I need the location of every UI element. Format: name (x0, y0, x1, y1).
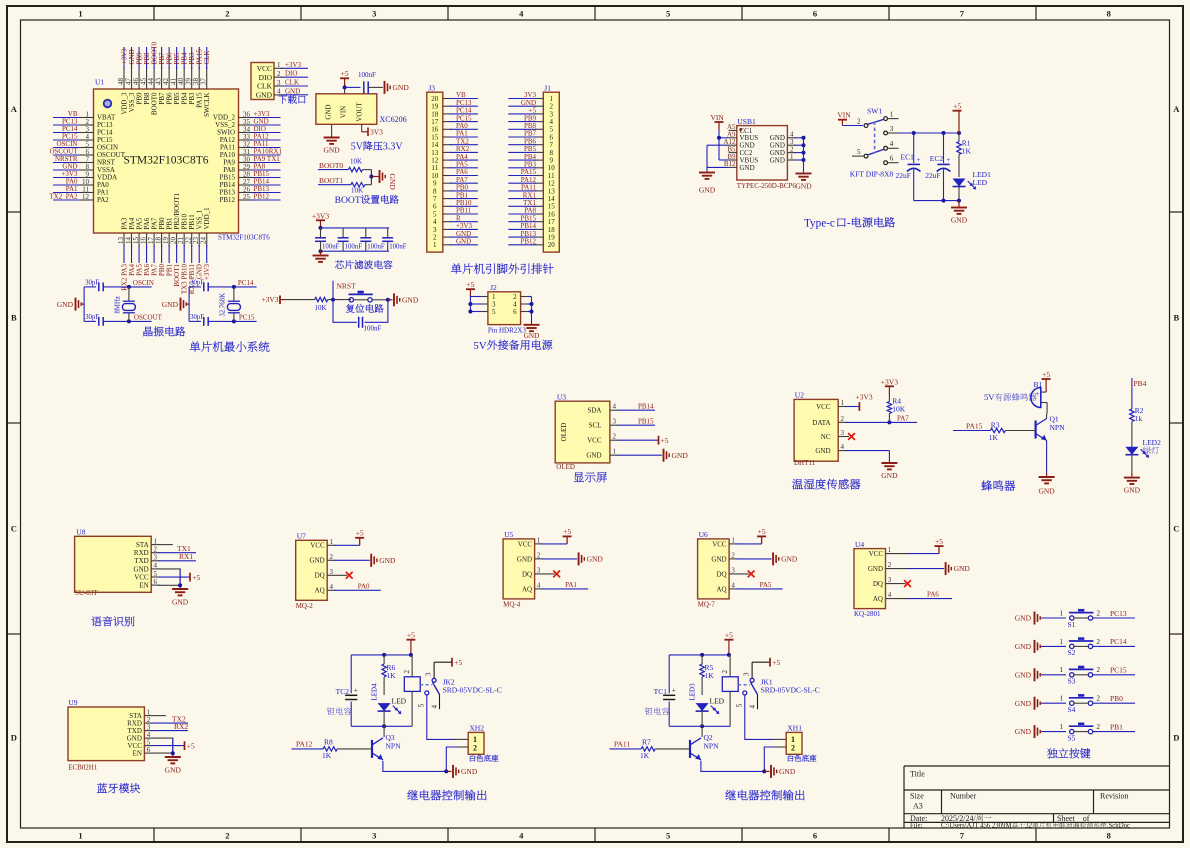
svg-text:U4: U4 (855, 540, 864, 549)
svg-text:OLED: OLED (556, 463, 575, 471)
capacitor EC1 22uF (913, 133, 915, 163)
svg-text:Size: Size (910, 792, 924, 801)
wire U2 DATA to PA7 (845, 421, 917, 423)
svg-text:NPN: NPN (1050, 423, 1066, 432)
wire S2 to PC14 (1093, 645, 1135, 647)
sensor U5 pin 1 (VCC) (535, 543, 543, 545)
svg-text:2: 2 (1097, 609, 1101, 617)
crystal 8MHz left rail (83, 287, 85, 322)
capacitor 30pF crystal 8MHz top (84, 286, 96, 288)
svg-text:KQ-2801: KQ-2801 (854, 610, 881, 618)
crystal crystal 32k (220, 286, 257, 288)
wire Q2 collector (701, 726, 703, 737)
svg-text:10K: 10K (350, 157, 362, 165)
mcu U1 pin 7 (NRST) left (53, 162, 82, 164)
mcu U1 pin 29 (PA8) right (239, 169, 253, 171)
svg-text:3: 3 (613, 418, 617, 426)
mcu U1 pin 5 (OSCIN) left (53, 147, 82, 149)
mcu U1 pin 43 (PB7) top (161, 67, 163, 89)
sensor U2 pin 1 (VCC) (838, 406, 846, 408)
mcu U1 pin 22 (PB11) bottom (191, 233, 193, 247)
svg-text:PC15: PC15 (239, 313, 255, 321)
svg-text:+5: +5 (466, 280, 474, 289)
resistor R7 1K (641, 747, 655, 751)
svg-text:OLED: OLED (560, 423, 568, 442)
svg-text:1K: 1K (962, 146, 972, 155)
wire to reset resistor (286, 299, 315, 301)
mcu U1 body (94, 89, 239, 233)
svg-text:1K: 1K (387, 671, 397, 680)
svg-text:J1: J1 (544, 83, 551, 92)
svg-text:S2: S2 (1068, 648, 1076, 657)
display U3 pin 3 (SCL) (610, 424, 618, 426)
svg-text:DQ: DQ (315, 572, 325, 580)
sensor U4 pin 1 (VCC) (886, 553, 909, 555)
header J1 pin 12 (PA12) (535, 182, 543, 184)
header J3 pin 6 (PB10) (443, 205, 451, 207)
wire gnd to S4 (1041, 702, 1066, 704)
svg-text:SRD-05VDC-SL-C: SRD-05VDC-SL-C (761, 685, 820, 694)
capacitor 30pF crystal 32k top (189, 286, 201, 288)
header J3 pin 15 (PA1) (443, 136, 451, 138)
svg-text:BOOT: BOOT (335, 195, 361, 206)
wire BOOT junction (370, 170, 372, 185)
caption 继电器控制输出 (725, 790, 736, 800)
svg-text:+: + (946, 156, 950, 164)
svg-text:PA15: PA15 (966, 421, 983, 430)
wire S5 to PB1 (1093, 731, 1135, 733)
svg-text:4: 4 (431, 705, 439, 709)
svg-text:+5: +5 (192, 573, 200, 582)
svg-text:1: 1 (890, 111, 894, 119)
svg-text:PC13: PC13 (1110, 609, 1127, 618)
header J3 pin 9 (PA7) (443, 182, 451, 184)
mcu U1 pin 45 (PB8) top (146, 67, 148, 89)
ground U2 GND pin (845, 450, 889, 452)
capacitor 100nF filter 2 (342, 228, 344, 238)
svg-text:GND: GND (881, 471, 898, 480)
svg-text:+3V3: +3V3 (312, 211, 329, 220)
header J3 pin 14 (TX2) (443, 144, 451, 146)
resistor R5 1K (701, 655, 703, 664)
J2 left pins wire (469, 297, 471, 312)
wire U9 TXD to RX2 (152, 730, 188, 732)
USB1 right GND pin 3 (787, 144, 795, 146)
transistor Q3 NPN (371, 740, 373, 758)
svg-text:8MHz: 8MHz (114, 296, 121, 313)
svg-text:1: 1 (1060, 695, 1064, 703)
wire buzzer pins (1041, 391, 1046, 393)
svg-text:30pF: 30pF (85, 314, 99, 321)
sensor U4 AQ to PA6 (907, 598, 952, 600)
svg-text:GND: GND (393, 83, 410, 92)
svg-text:4: 4 (277, 88, 281, 96)
svg-text:GND: GND (325, 104, 333, 119)
svg-text:GND: GND (779, 767, 796, 776)
svg-text:7: 7 (960, 831, 965, 841)
resistor R6 1K (383, 655, 385, 664)
svg-text:+5: +5 (187, 741, 195, 750)
ground GND right of regulator cap (384, 81, 386, 94)
sensor U6 pin 3 (DQ) (729, 573, 749, 575)
net label PA12 (292, 748, 324, 750)
svg-text:4: 4 (330, 583, 334, 591)
header J1 pin 13 (PA11) (535, 190, 543, 192)
svg-text:D: D (1173, 733, 1179, 743)
wire U8 VCC to +5 (158, 576, 190, 578)
svg-text:U2: U2 (795, 391, 804, 400)
svg-text:+: + (354, 686, 358, 695)
mcu U1 pin 23 (VSS_1) bottom (198, 233, 200, 247)
svg-text:4: 4 (613, 403, 617, 411)
svg-text:GND: GND (456, 238, 471, 246)
net label PA11 (610, 748, 642, 750)
svg-text:PB12: PB12 (254, 193, 270, 201)
push button reset S (349, 298, 353, 302)
svg-text:B: B (11, 313, 17, 323)
svg-text:4: 4 (841, 443, 845, 451)
svg-text:4: 4 (890, 140, 894, 148)
svg-text:XH2: XH2 (469, 724, 484, 733)
caption 独立按键 (1047, 748, 1057, 758)
svg-text:GND: GND (781, 555, 798, 564)
svg-text:AQ: AQ (315, 587, 325, 595)
svg-text:32: 32 (1025, 823, 1032, 830)
svg-text:PC14: PC14 (1110, 637, 1127, 646)
svg-text:GND: GND (285, 87, 300, 95)
ground relay JK1 (770, 765, 772, 778)
svg-text:GND: GND (815, 447, 830, 455)
sensor U6 +5 (736, 543, 762, 545)
svg-text:S4: S4 (1068, 705, 1076, 714)
svg-text:AQ: AQ (522, 585, 532, 593)
sensor U6 pin 2 (GND) (729, 558, 737, 560)
svg-text:3: 3 (154, 554, 158, 562)
svg-text:KFT DIP-8X8: KFT DIP-8X8 (850, 170, 894, 179)
svg-text:30pF: 30pF (190, 279, 204, 286)
svg-text:PA12: PA12 (296, 740, 313, 749)
mcu U1 pin 37 (SWCLK) top (206, 67, 208, 89)
sensor U4 gnd (907, 568, 944, 570)
relay switch JK2 (432, 678, 436, 682)
mcu U1 pin 47 (VSS_3) top (131, 67, 133, 89)
download port pin 3 (CLK) (274, 85, 282, 87)
module U8 pin 5 (VCC) (151, 576, 159, 578)
header J3 pin 5 (PB11) (443, 213, 451, 215)
header J1 pin 4 (PB9) (535, 121, 543, 123)
svg-text:SRD-05VDC-SL-C: SRD-05VDC-SL-C (443, 685, 502, 694)
wire XH2 pin2 to gnd (456, 746, 468, 748)
reset bottom loop wire (333, 300, 357, 323)
header J1 pin 9 (PB4) (535, 159, 543, 161)
header J1 pin 2 (GND) (535, 105, 543, 107)
header J3 pin 19 (PC13) (443, 105, 451, 107)
svg-text:SCL: SCL (589, 422, 602, 430)
svg-text:GND: GND (951, 216, 968, 225)
svg-text:+: + (917, 156, 921, 164)
svg-text:3: 3 (372, 9, 376, 19)
resistor 10K reset (315, 297, 328, 301)
mcu U1 pin 41 (PB5) top (176, 67, 178, 89)
svg-text:RX2: RX2 (174, 722, 188, 731)
svg-text:3: 3 (841, 429, 845, 437)
regulator U XC6206 body (316, 94, 377, 125)
svg-text:PA0: PA0 (358, 582, 370, 590)
ground USB1 right (796, 173, 812, 175)
transistor Q2 NPN (689, 740, 691, 758)
svg-text:GND: GND (711, 555, 726, 563)
svg-text:SW1: SW1 (867, 107, 882, 116)
svg-text:TC1: TC1 (654, 687, 668, 696)
relay coil JK1 (729, 655, 731, 677)
wire gnd to S3 (1041, 674, 1066, 676)
svg-text:2: 2 (537, 551, 541, 559)
capacitor 100nF filter 1 (320, 228, 322, 238)
svg-text:VCC: VCC (257, 64, 272, 73)
header J1 pin 11 (PA15) (535, 175, 543, 177)
svg-text:2: 2 (225, 9, 229, 19)
wire S3 to PC15 (1093, 674, 1135, 676)
mcu U1 pin 26 (PB13) right (239, 192, 253, 194)
svg-text:GND: GND (1038, 487, 1055, 496)
mcu U1 pin 6 (OSCOUT) left (53, 154, 82, 156)
svg-text:6: 6 (813, 9, 817, 19)
sensor U6 body (698, 539, 730, 599)
mcu U1 pin 17 (PA7) bottom (153, 233, 155, 247)
module U8 pin 1 (STA) (151, 544, 159, 546)
svg-text:VCC: VCC (310, 542, 325, 550)
svg-text:LED: LED (392, 696, 407, 705)
svg-text:LED: LED (710, 696, 725, 705)
svg-text:1: 1 (330, 538, 334, 546)
svg-text:STM32F103C8T6: STM32F103C8T6 (218, 234, 270, 242)
wire relay switch to XH1 pin1 (745, 695, 773, 739)
ground filter caps (313, 255, 329, 257)
wire relay switch to XH2 pin1 (427, 695, 455, 739)
svg-text:PA1: PA1 (565, 581, 577, 589)
ground U8 (172, 588, 188, 590)
display U3 pin 2 (VCC) (610, 439, 618, 441)
caption 蓝牙模块 (97, 783, 107, 793)
svg-text:1: 1 (154, 537, 158, 545)
mcu U1 pin 30 (PA9) right (239, 162, 253, 164)
svg-text:2: 2 (1097, 666, 1101, 674)
svg-text:1K: 1K (989, 433, 999, 442)
svg-text:GND: GND (162, 300, 179, 309)
svg-text:DQ: DQ (873, 580, 883, 588)
svg-text:PA2: PA2 (97, 196, 109, 204)
USB1 pin B9 (VBUS) (729, 159, 737, 161)
svg-text:4: 4 (888, 591, 892, 599)
capacitor 100nF filter 4 (387, 228, 389, 238)
regulator GND pin to ground (331, 124, 333, 136)
module U9 pin 3 (TXD) (144, 730, 152, 732)
svg-text:+3V3: +3V3 (856, 393, 873, 402)
svg-text:PC15: PC15 (1110, 666, 1127, 675)
svg-text:Pin HDR2X3: Pin HDR2X3 (488, 327, 526, 335)
svg-text:+5: +5 (1042, 370, 1050, 379)
caption 蜂鸣器 (981, 480, 992, 490)
svg-text:GND: GND (795, 182, 812, 191)
svg-text:USB1: USB1 (737, 117, 756, 126)
svg-text:PA11: PA11 (614, 740, 630, 749)
module U9 pin 2 (RXD) (144, 722, 152, 724)
wire U9 GND pin down (152, 738, 173, 753)
wire SW1 pin3 to power rail (888, 132, 899, 134)
svg-text:EN: EN (133, 750, 142, 758)
svg-text:1: 1 (277, 61, 281, 69)
mcu U1 pin 13 (PA3) bottom (123, 233, 125, 247)
sensor U6 no-connect X (748, 571, 755, 578)
sensor U5 gnd (542, 558, 578, 560)
power +5 at regulator (340, 77, 349, 79)
J2 pin 3 (480, 303, 488, 305)
svg-text:3V3: 3V3 (370, 127, 383, 136)
svg-text:Number: Number (950, 792, 977, 801)
svg-text:TC2: TC2 (336, 687, 350, 696)
svg-text:GND: GND (172, 597, 189, 606)
svg-text:2: 2 (403, 670, 411, 674)
USB1 pin B5 (CC2) (729, 152, 737, 154)
wire VIN to SW1 pin2 (842, 125, 863, 127)
resistor R8 1K (323, 747, 337, 751)
mcu U1 pin 46 (PB9) top (138, 67, 140, 89)
svg-text:U3: U3 (557, 392, 566, 401)
sensor U4 pin 4 (AQ) (886, 598, 909, 600)
ground type-c (958, 201, 960, 207)
svg-text:CLK: CLK (257, 82, 273, 91)
svg-text:3: 3 (372, 831, 376, 841)
svg-text:PB12: PB12 (219, 196, 235, 204)
sensor U2 pin 4 (GND) (838, 450, 846, 452)
mcu U1 pin 4 (PC15) left (53, 139, 82, 141)
header J1 pin 1 (3V3) (535, 98, 543, 100)
wire U9 RXD to TX2 (152, 722, 188, 724)
capacitor TC1 tantalum (668, 655, 670, 693)
svg-text:NRST: NRST (337, 281, 357, 290)
svg-text:10K: 10K (351, 187, 363, 195)
svg-text:Sheet of: Sheet of (1057, 814, 1090, 823)
svg-text:5V: 5V (351, 142, 364, 153)
svg-text:3.3V: 3.3V (383, 142, 404, 153)
header J1 pin 15 (TX1) (535, 205, 543, 207)
svg-text:U6: U6 (699, 530, 708, 539)
relay bottom rail (669, 725, 730, 727)
module U8 pin 2 (RXD) (151, 552, 159, 554)
svg-text:STM32F103C8T6: STM32F103C8T6 (124, 155, 209, 167)
svg-text:5V: 5V (473, 340, 487, 352)
svg-text:2: 2 (1097, 638, 1101, 646)
mcu U1 pin 34 (SWIO) right (239, 132, 253, 134)
sensor U5 AQ to PA1 (542, 588, 589, 590)
USB1 right GND pin 4 (787, 137, 795, 139)
header J3 pin 17 (PC15) (443, 121, 451, 123)
svg-text:PB4: PB4 (1134, 379, 1147, 388)
svg-text:PB15: PB15 (638, 417, 654, 425)
svg-text:AQ: AQ (716, 585, 726, 593)
wire Q2 emitter to gnd rail (701, 761, 764, 772)
svg-text:BOOT1: BOOT1 (319, 176, 343, 185)
svg-text:PC14: PC14 (238, 279, 254, 287)
svg-text:+5: +5 (661, 436, 669, 445)
led LED1 (953, 179, 966, 187)
svg-text:LED3: LED3 (689, 683, 697, 701)
svg-text:+5: +5 (758, 527, 766, 536)
svg-text:GND: GND (379, 556, 396, 565)
wire gnd to S1 (1041, 617, 1066, 619)
caption 晶振电路 (144, 327, 153, 337)
svg-text:GND: GND (740, 164, 755, 172)
svg-text:3: 3 (888, 576, 892, 584)
mcu U1 pin 28 (PB15) right (239, 177, 253, 179)
wire U3 VCC to +5 (617, 439, 659, 441)
mcu U1 pin 14 (PA4) bottom (131, 233, 133, 247)
sensor U6 gnd (736, 558, 772, 560)
svg-text:GND: GND (524, 332, 540, 340)
sensor U5 pin 3 (DQ) (535, 573, 555, 575)
header J3 pin 10 (PA6) (443, 175, 451, 177)
svg-text:GND: GND (402, 295, 419, 304)
power +3V3 at U2 VCC (845, 406, 859, 408)
svg-text:+5: +5 (953, 102, 961, 111)
regulator VOUT pin to 3V3 (361, 124, 363, 132)
svg-text:VIN: VIN (837, 111, 851, 120)
connector XH2 caption 白色底座 (470, 755, 475, 762)
svg-text:25: 25 (243, 193, 251, 201)
filter caps bottom rail (321, 250, 390, 252)
wire U3 SCL to PB15 (617, 424, 655, 426)
svg-text:U9: U9 (68, 698, 77, 707)
capacitor 100nF at regulator input (363, 81, 365, 93)
svg-text:GND: GND (134, 565, 149, 573)
svg-text:+5: +5 (935, 537, 943, 546)
connector download port body (251, 63, 274, 100)
svg-text:1: 1 (841, 399, 845, 407)
svg-text:3: 3 (330, 568, 334, 576)
mcu U1 pin 25 (PB12) right (239, 199, 253, 201)
svg-text:2: 2 (841, 415, 845, 423)
svg-text:U1: U1 (95, 78, 104, 87)
header J3 pin 4 (R) (443, 221, 451, 223)
connector XH1 caption 白色底座 (788, 755, 793, 762)
svg-text:BOOT0: BOOT0 (319, 161, 343, 170)
svg-text:2: 2 (721, 670, 729, 674)
header J1 pin 8 (PB5) (535, 151, 543, 153)
svg-text:5: 5 (492, 308, 496, 316)
ground J2 (524, 324, 540, 326)
svg-text:NPN: NPN (386, 741, 402, 750)
svg-text:4: 4 (154, 562, 158, 570)
sensor U4 no-connect X (904, 580, 911, 587)
wire XH1 pin2 to gnd (774, 746, 786, 748)
sensor U7 no-connect X (346, 572, 353, 579)
net label NRST (332, 281, 334, 300)
display U3 body (555, 401, 610, 463)
caption 显示屏 (574, 472, 584, 482)
svg-text:100nF: 100nF (358, 71, 376, 79)
ground U3 GND pin (617, 454, 662, 456)
header J1 pin 18 (PB14) (535, 228, 543, 230)
svg-text:7: 7 (960, 9, 965, 19)
J2 pin 5 (480, 311, 488, 313)
svg-text:VDD_1: VDD_1 (203, 207, 211, 230)
svg-text:6: 6 (890, 155, 894, 163)
svg-text:XC6206: XC6206 (380, 115, 407, 124)
mcu U1 pin 10 (PA0) left (53, 184, 82, 186)
sensor U7 pin 3 (DQ) (327, 574, 347, 576)
svg-text:File:: File: (910, 823, 923, 830)
svg-text:+: + (672, 686, 676, 695)
